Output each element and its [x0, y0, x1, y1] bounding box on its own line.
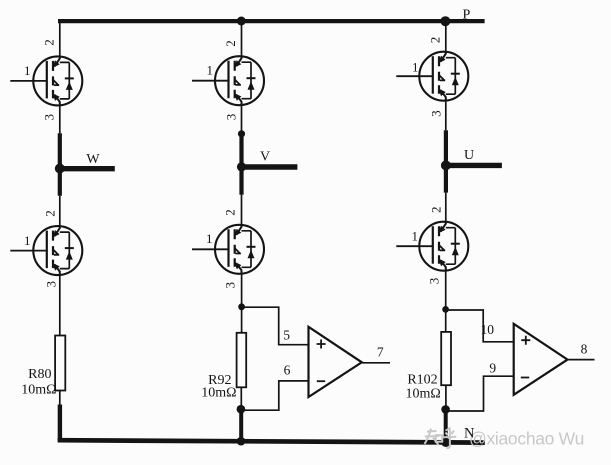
wire W column: bus to Q1 drain [59, 21, 61, 56]
wire W node thick vertical [58, 133, 62, 195]
op-amp U1 (V current sense) [309, 327, 362, 397]
svg-text:3: 3 [42, 114, 57, 121]
svg-text:N: N [464, 426, 475, 442]
transistor Q1 (W high side MOSFET) [10, 56, 82, 105]
svg-text:2: 2 [41, 39, 56, 46]
resistor R102 [441, 332, 451, 385]
svg-text:W: W [86, 152, 100, 167]
svg-text:1: 1 [412, 229, 419, 244]
wire op-amp pin 6 tap [241, 381, 309, 410]
wire U column: bus to Q5 drain [445, 21, 447, 52]
svg-text:7: 7 [377, 345, 384, 360]
wire W phase stub [60, 166, 115, 171]
svg-text:R102: R102 [407, 373, 437, 388]
wire op-amp pin 5 tap [242, 307, 309, 345]
svg-text:3: 3 [222, 282, 237, 289]
wire op-amp U1 output [362, 362, 390, 364]
wire V shunt to N bus thick [239, 409, 243, 441]
junction U shunt bottom [441, 405, 450, 414]
svg-text:P: P [463, 8, 471, 23]
wire R80 to N bus thick [58, 405, 62, 441]
svg-text:10: 10 [480, 322, 494, 337]
op-amp U1 minus sign [317, 380, 325, 382]
wire U shunt to N bus thick [444, 409, 448, 442]
wire op-amp U2 output [568, 359, 595, 361]
wire W node to Q2 drain [59, 196, 61, 226]
junction V node [237, 162, 246, 171]
svg-text:2: 2 [427, 37, 442, 44]
op-amp U1 plus sign [317, 340, 326, 349]
wire V phase stub [242, 164, 298, 169]
svg-text:1: 1 [24, 63, 31, 78]
svg-text:3: 3 [428, 110, 443, 117]
wire bottom bus N rail [58, 440, 485, 442]
junction N bus at U column [441, 438, 450, 447]
junction U node [441, 160, 451, 170]
watermark zhihu characters [425, 428, 457, 449]
wire Q3 source to V node [241, 105, 243, 134]
op-amp U2 minus sign [521, 377, 529, 379]
wire V column: bus to Q3 drain [241, 21, 243, 56]
svg-text:V: V [260, 150, 270, 165]
resistor R80 [55, 336, 65, 391]
transistor Q4 (V low side MOSFET) [192, 225, 264, 274]
svg-text:10mΩ: 10mΩ [406, 387, 441, 402]
junction W node [55, 164, 65, 174]
junction on P bus at U column [440, 16, 450, 26]
svg-text:1: 1 [24, 233, 31, 248]
svg-text:1: 1 [206, 231, 213, 246]
junction N bus at V column [237, 437, 246, 446]
svg-text:1: 1 [412, 60, 419, 75]
junction on P bus at V column [237, 17, 246, 26]
op-amp U2 plus sign [521, 336, 530, 345]
wire R80 to N bus thin [59, 391, 61, 407]
wire op-amp pin 9 tap [446, 376, 514, 411]
svg-text:U: U [464, 148, 474, 163]
svg-text:2: 2 [223, 40, 238, 47]
wire top bus P rail [58, 19, 485, 23]
wire R102 bottom to junction [445, 385, 447, 409]
svg-text:3: 3 [44, 281, 59, 288]
wire R92 bottom to junction [240, 387, 242, 409]
wire U node to Q6 drain [445, 193, 447, 222]
svg-text:8: 8 [581, 342, 588, 357]
wire U phase stub [446, 163, 502, 168]
wire V node to Q4 drain [241, 195, 243, 226]
wire V node thick vertical [239, 134, 243, 195]
svg-text:2: 2 [43, 210, 58, 217]
svg-text:10mΩ: 10mΩ [21, 383, 56, 398]
wire Q6 source to R102 [445, 271, 447, 332]
wire Q5 source to U node [445, 101, 447, 130]
transistor Q3 (V high side MOSFET) [192, 56, 264, 105]
wire Q4 source to R92 [241, 273, 243, 332]
junction V shunt bottom [237, 405, 246, 414]
svg-text:@xiaochao Wu: @xiaochao Wu [469, 428, 584, 448]
transistor Q6 (U low side MOSFET) [396, 222, 468, 271]
svg-text:9: 9 [489, 361, 496, 376]
junction U shunt top [442, 306, 449, 313]
svg-text:5: 5 [283, 328, 290, 343]
svg-text:R80: R80 [28, 367, 51, 382]
transistor Q2 (W low side MOSFET) [10, 226, 82, 275]
svg-text:1: 1 [207, 63, 214, 78]
transistor Q5 (U high side MOSFET) [396, 52, 468, 101]
junction V node top [238, 130, 245, 137]
wire Q1 source to W node [59, 106, 61, 134]
svg-text:2: 2 [429, 206, 444, 213]
junction V shunt top [238, 303, 245, 310]
wire op-amp pin 10 tap [446, 310, 514, 342]
op-amp U2 (U current sense) [514, 324, 568, 395]
svg-text:2: 2 [222, 209, 237, 216]
svg-text:6: 6 [284, 362, 291, 377]
resistor R92 [237, 333, 247, 388]
wire Q2 source to R80 [59, 275, 61, 335]
svg-text:10mΩ: 10mΩ [201, 386, 236, 401]
svg-text:3: 3 [426, 278, 441, 285]
svg-text:3: 3 [223, 114, 238, 121]
wire U node thick vertical [444, 130, 448, 192]
